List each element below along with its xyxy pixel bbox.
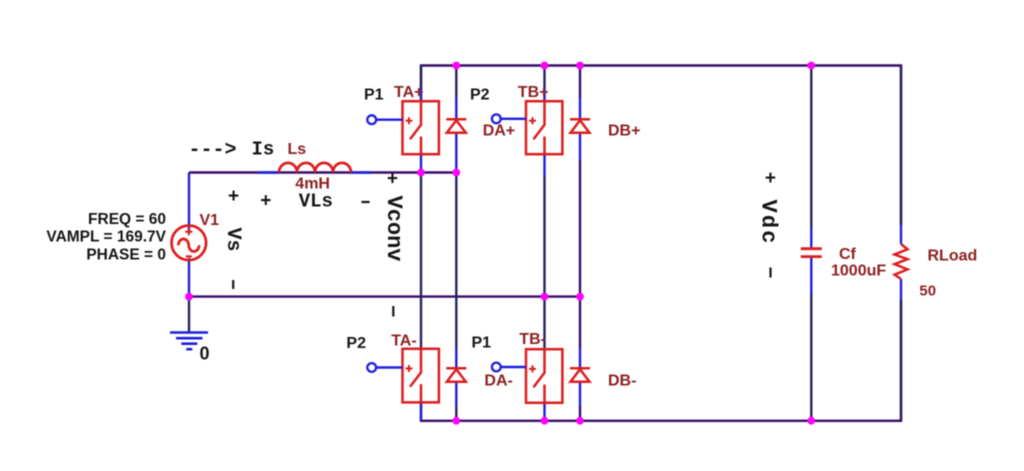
svg-text:--->: --->	[189, 139, 237, 162]
wire top rail	[421, 66, 901, 226]
svg-text:0: 0	[200, 344, 210, 364]
diode DB+	[570, 119, 590, 133]
svg-text:Vs: Vs	[221, 228, 244, 252]
svg-text:DA-: DA-	[484, 373, 512, 390]
svg-text:50: 50	[919, 283, 936, 300]
wire leg A upper (TA+)	[420, 66, 422, 89]
svg-text:TA-: TA-	[391, 333, 416, 350]
wire leg A middle	[420, 155, 422, 173]
wire leg B upper (TB+)	[543, 66, 545, 89]
wire leg DB lower	[579, 348, 581, 368]
wire leg DA upper	[455, 66, 457, 99]
wire lower AC node	[189, 295, 580, 297]
switch TB-	[526, 349, 562, 403]
svg-text:Is: Is	[252, 139, 275, 161]
svg-text:P1: P1	[364, 87, 384, 104]
capacitor Cf	[801, 249, 822, 257]
resistor RLoad	[895, 244, 908, 279]
svg-text:Ls: Ls	[288, 141, 307, 158]
svg-text:V1: V1	[200, 212, 220, 229]
diode DB-	[570, 368, 590, 382]
wire inductor right stub	[351, 171, 372, 173]
svg-text:DB+: DB+	[608, 123, 640, 140]
label VLs minus	[361, 201, 369, 203]
node junction DB- bottom	[576, 417, 584, 425]
node junction leg B mid	[541, 293, 549, 301]
svg-text:P2: P2	[346, 335, 366, 352]
node junction DB+ top	[576, 62, 584, 70]
svg-text:RLoad: RLoad	[928, 248, 978, 265]
wire V1 branch upper	[188, 173, 190, 232]
node junction leg A mid	[417, 169, 425, 177]
svg-text:Vdc: Vdc	[756, 200, 781, 246]
wire inductor left stub	[258, 171, 279, 173]
wire mid AC node (Vconv top)	[189, 171, 456, 173]
pin P2 of TB+	[501, 118, 526, 120]
wire leg DA lower	[455, 348, 457, 368]
wire RLoad branch	[900, 225, 902, 244]
node junction TB+ top	[541, 62, 549, 70]
wire leg B middle	[543, 155, 545, 177]
wire Cf branch	[810, 66, 812, 229]
svg-text:+: +	[228, 186, 239, 208]
label Vconv minus	[392, 306, 394, 317]
svg-text:VAMPL = 169.7V: VAMPL = 169.7V	[46, 228, 166, 245]
svg-text:+: +	[387, 169, 398, 191]
wire leg DB middle	[579, 133, 581, 160]
label Vdc minus	[769, 268, 771, 278]
wire V1 branch lower	[188, 258, 190, 297]
svg-text:DA+: DA+	[483, 123, 515, 140]
wire leg DB upper	[579, 66, 581, 99]
svg-text:TA+: TA+	[394, 84, 423, 101]
node junction TB- bottom	[541, 417, 549, 425]
diode DA+	[446, 119, 466, 133]
node junction leg DB mid	[576, 293, 584, 301]
svg-text:PHASE = 0: PHASE = 0	[86, 246, 166, 263]
wire leg DA middle	[455, 133, 457, 173]
svg-text:+: +	[765, 168, 776, 190]
switch TB+	[526, 101, 562, 154]
svg-text:VLs: VLs	[299, 191, 333, 213]
node junction Cf bottom	[807, 417, 815, 425]
inductor Ls	[279, 163, 351, 173]
node junction DA+ top	[452, 62, 460, 70]
svg-text:TB-: TB-	[519, 331, 546, 348]
ground 0	[170, 333, 208, 350]
pin P1 of TA+	[376, 118, 403, 120]
switch TA+	[403, 101, 439, 154]
svg-text:DB-: DB-	[608, 373, 636, 390]
svg-text:1000uF: 1000uF	[831, 262, 886, 279]
svg-text:TB+: TB+	[518, 84, 549, 101]
svg-text:+: +	[260, 191, 271, 213]
switch TA-	[403, 349, 439, 403]
svg-text:P2: P2	[470, 87, 490, 104]
svg-text:Cf: Cf	[839, 246, 857, 263]
node junction Cf top	[807, 62, 815, 70]
diode DA-	[446, 368, 466, 382]
pin P1 of TB-	[501, 366, 526, 368]
wire leg B lower (TB-)	[543, 403, 545, 421]
wire ground stub	[188, 297, 190, 333]
svg-text:Vconv: Vconv	[381, 196, 406, 262]
node junction DA- bottom	[452, 417, 460, 425]
svg-text:P1: P1	[472, 335, 492, 352]
svg-text:FREQ = 60: FREQ = 60	[88, 211, 166, 228]
node junction V1 bottom	[185, 293, 193, 301]
wire leg A lower (TA-)	[420, 403, 422, 421]
source V1	[172, 226, 207, 261]
pin P2 of TA-	[376, 366, 403, 368]
label Vs minus	[232, 280, 234, 289]
wire bottom rail	[421, 300, 901, 421]
node junction leg DA mid	[452, 169, 460, 177]
